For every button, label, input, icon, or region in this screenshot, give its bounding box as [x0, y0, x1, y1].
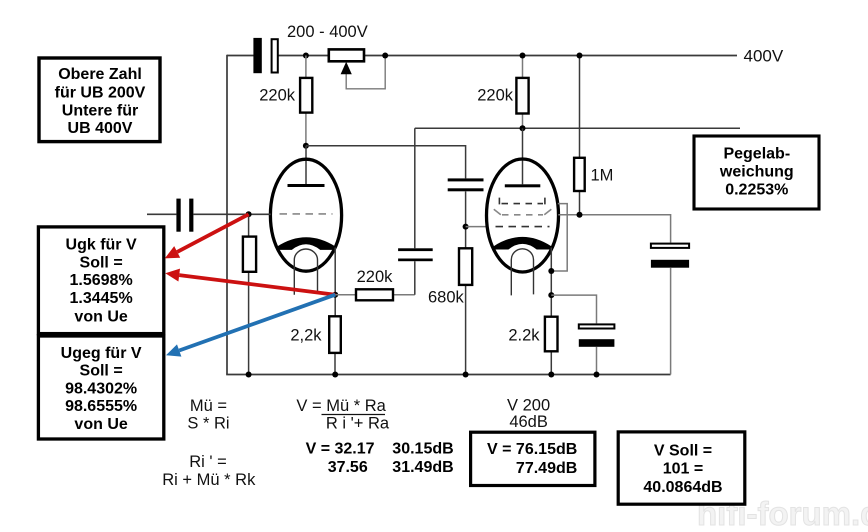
text box: Obere Zahl fuer UB [39, 58, 160, 142]
svg-text:V = Mü * Ra: V = Mü * Ra [296, 397, 386, 415]
resistor R4 grid leak with leads [243, 214, 256, 374]
node: V2 cathode junction [548, 292, 554, 298]
wire: rail2 V2 anode/output line [415, 127, 740, 129]
svg-text:von Ue: von Ue [74, 309, 127, 326]
svg-text:Mü =: Mü = [190, 397, 227, 415]
resistor R2 220k (V2 anode load) with leads [516, 56, 528, 129]
wire: input stub [147, 213, 176, 215]
svg-text:200 - 400V: 200 - 400V [287, 23, 368, 41]
svg-text:40.0864dB: 40.0864dB [643, 479, 722, 496]
resistor R7 680k with bottom lead [459, 248, 472, 374]
svg-text:Untere für: Untere für [62, 102, 138, 119]
svg-text:Ri + Mü * Rk: Ri + Mü * Rk [162, 471, 256, 489]
node: rail junction above 1M [577, 53, 583, 59]
resistor R6 220k feedback (horizontal) with leads [335, 289, 415, 300]
svg-text:R i '+ Ra: R i '+ Ra [326, 414, 390, 432]
resistor R8 2.2k with bottom lead [545, 317, 558, 375]
wire: V2 anode drop into tube [522, 128, 524, 184]
svg-text:V Soll =: V Soll = [654, 442, 712, 459]
node: g3/cathode tie junction [548, 268, 554, 274]
text box: Ugk fuer V Soll [38, 227, 163, 334]
wire: ground bottom rail [226, 374, 670, 376]
svg-text:31.49dB: 31.49dB [392, 459, 453, 476]
red arrow to Ugk box from V1 cathode node [165, 269, 335, 295]
svg-text:Ri ' =: Ri ' = [189, 453, 227, 471]
wire: V2 cathode lead [550, 248, 552, 317]
svg-text:V = 32.17: V = 32.17 [306, 441, 375, 458]
wire: C3 down to V2 grid node [465, 191, 467, 248]
potentiometer P1 with wiper arrow [329, 49, 385, 88]
blue arrow to Ugeg box from V1 cathode node [166, 295, 335, 357]
svg-text:V = 76.15dB: V = 76.15dB [487, 441, 577, 458]
pentode V2 anode plate [505, 184, 541, 187]
svg-text:1.5698%: 1.5698% [70, 272, 133, 289]
node: V2 grid junction [463, 224, 469, 230]
pentode V2 suppressor grid g3 (dashed with end hooks) [499, 198, 545, 205]
pentode V2 envelope [487, 159, 559, 272]
svg-text:30.15dB: 30.15dB [392, 441, 453, 458]
wire: left supply vertical down to ground [226, 55, 228, 375]
wire: V1 anode drop into tube [305, 146, 307, 185]
text box: V = 76.15dB [471, 432, 595, 485]
capacitor C6 screen bypass electrolytic [651, 244, 689, 268]
node: V2 anode junction on rail2 [520, 125, 526, 131]
svg-text:von Ue: von Ue [74, 416, 127, 433]
svg-text:98.6555%: 98.6555% [65, 398, 137, 415]
pentode V2 screen grid g2 (dashed with angled ends) [494, 209, 552, 215]
node: V1 grid junction [246, 211, 252, 217]
svg-text:Ugk für V: Ugk für V [66, 236, 137, 253]
resistor R3 1M with leads [574, 56, 585, 215]
wire: V2 grid wire [466, 226, 487, 228]
wire: g2 node to screen bypass C6 [558, 215, 670, 243]
svg-text:101 =: 101 = [663, 460, 703, 477]
node: ground junction R7 [463, 372, 469, 378]
node: V1 cathode junction [332, 292, 338, 298]
node: B+ junction [303, 53, 309, 59]
triode V1 grid (dashed) [280, 213, 333, 215]
svg-text:UB 400V: UB 400V [68, 120, 133, 137]
svg-text:Ugeg für V: Ugeg für V [61, 345, 142, 362]
svg-text:2.2k: 2.2k [508, 326, 540, 344]
svg-text:46dB: 46dB [509, 413, 548, 431]
text box: V Soll [618, 432, 745, 504]
svg-text:für UB 200V: für UB 200V [55, 84, 146, 101]
svg-text:Obere Zahl: Obere Zahl [58, 66, 142, 83]
capacitor C1 supply electrolytic [253, 38, 277, 73]
svg-text:1M: 1M [591, 167, 614, 185]
node: rail junction above R2 [520, 53, 526, 59]
node: g2 junction [577, 212, 583, 218]
resistor R1 220k (V1 anode load) with leads [300, 56, 312, 146]
pentode V2 cathode [494, 237, 551, 250]
wire: cathode to bypass C5 [551, 295, 596, 374]
svg-text:weichung: weichung [719, 163, 794, 180]
svg-text:220k: 220k [259, 86, 296, 104]
wire: V1 cathode lead [334, 248, 336, 317]
node: V1 anode junction [303, 143, 309, 149]
capacitor C2 input coupling [176, 199, 193, 232]
capacitor C4 feedback with stem to rail2 [398, 128, 433, 295]
red arrow to Ugk box from V1 grid node [165, 214, 249, 258]
triode V1 envelope [270, 159, 341, 271]
node: ground junction C5 [594, 372, 600, 378]
svg-text:2,2k: 2,2k [290, 326, 322, 344]
triode V1 cathode [277, 237, 335, 250]
text box: Ugeg fuer V Soll [38, 336, 163, 439]
svg-text:1.3445%: 1.3445% [70, 290, 133, 307]
svg-text:400V: 400V [744, 47, 784, 66]
pentode V2 heater loop [511, 249, 533, 296]
text box: Pegelabweichung [694, 136, 819, 209]
svg-text:77.49dB: 77.49dB [516, 460, 577, 477]
svg-text:680k: 680k [428, 288, 465, 306]
wire: g3 tie to cathode [551, 204, 567, 271]
label V numeric results [306, 441, 454, 477]
wire: V1 anode node to coupling cap C3 [306, 146, 466, 179]
wire: C6 to ground rail [670, 268, 672, 375]
label V 200 46dB [507, 397, 550, 431]
triode V1 heater loop [294, 249, 317, 295]
pentode V2 control grid g1 (dashed) [496, 226, 550, 228]
svg-text:Soll =: Soll = [80, 254, 123, 271]
capacitor C5 cathode bypass electrolytic [579, 324, 615, 346]
svg-text:0.2253%: 0.2253% [725, 181, 788, 198]
wire: 400V top rail [227, 55, 737, 57]
node: ground junction R8 [548, 372, 554, 378]
label gain formula V = Mü*Ra / Ri'+Ra [296, 397, 390, 432]
capacitor C3 interstage coupling [448, 178, 484, 191]
svg-text:98.4302%: 98.4302% [65, 380, 137, 397]
svg-text:220k: 220k [477, 86, 514, 104]
wire: C2 to V1 grid [193, 213, 270, 215]
node: ground junction R5 [332, 372, 338, 378]
svg-text:S * Ri: S * Ri [187, 414, 229, 432]
node: ground junction R4 [246, 372, 252, 378]
svg-text:Soll =: Soll = [80, 363, 123, 380]
svg-text:37.56: 37.56 [328, 459, 368, 476]
label Mü = S * Ri [187, 397, 229, 432]
resistor R5 2,2k with bottom lead [329, 316, 341, 374]
triode V1 anode plate [288, 184, 325, 187]
svg-text:220k: 220k [357, 268, 394, 286]
node: wiper return junction [382, 53, 388, 59]
label Ri' formula [162, 453, 256, 489]
svg-text:Pegelab-: Pegelab- [723, 145, 790, 162]
